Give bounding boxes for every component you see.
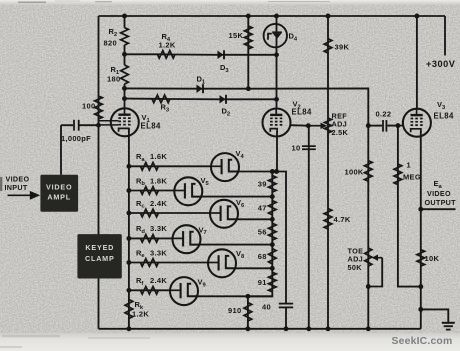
- node bottom bus 39K line: [326, 326, 331, 331]
- svg-text:SeekIC.com: SeekIC.com: [392, 336, 453, 347]
- video input arrow: [8, 194, 32, 196]
- wire 10uF line: [308, 126, 310, 329]
- svg-text:MEG: MEG: [403, 173, 421, 182]
- tube V7: [173, 225, 201, 253]
- node bus 40uF: [284, 326, 289, 331]
- capacitor 0.22 plates: [382, 120, 384, 132]
- node V2 grid junction: [306, 123, 311, 128]
- diode D2: [220, 95, 226, 103]
- node 1MEG join: [418, 284, 423, 289]
- wire 910 line: [247, 296, 249, 329]
- tube V4: [211, 153, 239, 181]
- svg-text:100K: 100K: [345, 168, 364, 177]
- svg-text:1: 1: [407, 161, 411, 170]
- wire 15K line: [247, 16, 249, 89]
- node D1 row: [122, 86, 127, 91]
- wire D1 row to V3 grid: [125, 88, 369, 125]
- tube V6: [210, 200, 238, 228]
- wire 1MEG line: [398, 126, 421, 287]
- svg-text:CLAMP: CLAMP: [85, 254, 115, 263]
- wire R2 top: [124, 16, 126, 28]
- svg-text:4.7K: 4.7K: [334, 215, 351, 224]
- resistor R1: [121, 65, 129, 84]
- svg-text:EL84: EL84: [434, 112, 454, 121]
- potentiometer REF ADJ 2.5K: [325, 118, 332, 133]
- node top bus 15K: [246, 14, 251, 19]
- svg-text:10K: 10K: [425, 254, 440, 263]
- potentiometer TOE ADJ 50K: [365, 248, 372, 266]
- tube V9: [170, 277, 198, 305]
- wire 0.22 row: [368, 125, 382, 127]
- wire TOE wiper jog: [368, 258, 382, 287]
- wire D4 line: [276, 16, 278, 55]
- svg-text:1.8K: 1.8K: [150, 176, 167, 185]
- node chain tap e: [270, 266, 275, 271]
- svg-text:39: 39: [258, 180, 267, 189]
- node D3 to V2 plate line: [274, 52, 279, 57]
- resistor Re 3.3K: [140, 259, 158, 267]
- node output tap: [418, 207, 423, 212]
- node D2 to V2 plate line: [274, 97, 279, 102]
- wire row Rb: [129, 190, 174, 192]
- wire row Rd: [129, 237, 173, 239]
- diode D4 triangle: [273, 33, 282, 38]
- svg-text:3.3K: 3.3K: [150, 224, 167, 233]
- node cathode row c: [126, 211, 131, 216]
- node bus 910: [245, 326, 250, 331]
- wire R1 to V1 plate: [124, 84, 126, 109]
- svg-text:AMPL: AMPL: [47, 193, 71, 202]
- wire bottom ground bus: [99, 328, 421, 330]
- wire output: [421, 208, 456, 210]
- svg-text:KEYED: KEYED: [85, 243, 114, 252]
- svg-text:100: 100: [82, 102, 95, 111]
- wire +300V stub: [444, 16, 446, 56]
- diode D4 envelope: [264, 24, 287, 47]
- node top bus V3: [414, 14, 419, 19]
- resistor 68: [269, 249, 277, 264]
- pot TOE wiper arrow: [377, 257, 382, 259]
- wire cap down to video ampl: [60, 125, 62, 175]
- node chain tap d: [270, 242, 275, 247]
- node chain tap c: [270, 217, 275, 222]
- resistor 1 MEG: [394, 164, 402, 185]
- svg-text:VIDEO: VIDEO: [46, 182, 72, 191]
- svg-text:2.5K: 2.5K: [332, 128, 349, 137]
- node chain tap b: [270, 194, 275, 199]
- resistor 100 ohm: [95, 96, 103, 119]
- resistor Rb 1.8K: [140, 187, 158, 195]
- wire V2 grid right: [290, 124, 308, 127]
- node cathode row d: [126, 236, 131, 241]
- wire row Ra: [129, 165, 211, 167]
- wire V8 plate to chain: [236, 267, 272, 269]
- svg-text:10: 10: [292, 144, 301, 153]
- svg-text:1.6K: 1.6K: [150, 152, 167, 161]
- pot REF ADJ wiper arrow: [308, 125, 322, 127]
- svg-text:15K: 15K: [229, 31, 244, 40]
- tube V1 EL84: [111, 108, 139, 136]
- scan artifact bottom-left smudges: [2, 335, 60, 338]
- wire V1 cathode line: [128, 128, 130, 328]
- svg-text:910: 910: [228, 306, 241, 315]
- node V3 grid junction: [395, 123, 400, 128]
- wire 39K line: [327, 16, 329, 329]
- node chain top: [270, 169, 275, 174]
- node R3 row: [122, 96, 127, 101]
- wire V3 plate line: [416, 16, 418, 109]
- node top bus D4: [274, 14, 279, 19]
- svg-text:1,000pF: 1,000pF: [61, 134, 91, 143]
- svg-text:EL84: EL84: [141, 122, 161, 131]
- resistor 4.7K: [324, 209, 332, 230]
- svg-text:1.2K: 1.2K: [159, 41, 176, 50]
- diode D1: [197, 85, 203, 93]
- wire 40uF to bus: [285, 307, 287, 328]
- node bus 10uF: [306, 326, 311, 331]
- resistor 910: [244, 303, 252, 322]
- node bus Rk: [126, 326, 131, 331]
- node top bus 39K: [326, 14, 331, 19]
- node 15K bottom: [246, 86, 251, 91]
- resistor Ra 1.6K: [140, 163, 158, 171]
- wire V9 plate to 910 node: [198, 295, 272, 297]
- scan artifact top edge streaks: [18, 1, 46, 3]
- resistor 10K: [417, 250, 425, 266]
- wire to ground: [421, 309, 449, 322]
- wire V2 plate line: [276, 55, 278, 109]
- wire top B+ bus: [99, 15, 446, 17]
- node top bus / R2: [122, 14, 127, 19]
- resistor R3: [152, 95, 170, 103]
- wire row Rf: [129, 289, 170, 291]
- tube V5: [174, 177, 202, 205]
- resistor R2: [121, 28, 129, 45]
- wire V7 plate to chain: [201, 244, 273, 246]
- svg-text:OUTPUT: OUTPUT: [425, 198, 457, 207]
- resistor 47: [269, 201, 277, 215]
- wire row Re: [129, 262, 208, 264]
- svg-text:EL84: EL84: [292, 108, 312, 117]
- tube V2 EL84: [263, 109, 291, 137]
- svg-text:91: 91: [258, 278, 267, 287]
- svg-text:0.22: 0.22: [376, 110, 392, 119]
- svg-text:180: 180: [107, 75, 120, 84]
- svg-text:INPUT: INPUT: [5, 183, 28, 192]
- wire cap to V1 grid: [61, 124, 73, 126]
- svg-text:68: 68: [258, 252, 267, 261]
- node ground branch: [418, 307, 423, 312]
- resistor Rk 1.2K: [125, 300, 133, 319]
- resistor 39: [269, 176, 277, 193]
- svg-text:3.3K: 3.3K: [150, 248, 167, 257]
- svg-text:820: 820: [104, 39, 117, 48]
- node cathode row f: [126, 288, 131, 293]
- wire row Rc: [129, 212, 210, 214]
- ground symbol: [442, 322, 455, 324]
- block KEYED CLAMP: [77, 234, 121, 278]
- node grid junction V1: [96, 123, 101, 128]
- block VIDEO AMPL: [40, 175, 78, 212]
- resistor Rc 2.4K: [140, 209, 158, 217]
- resistor 100K: [365, 161, 373, 182]
- wire divider chain: [271, 172, 273, 291]
- wire V4 plate to chain top: [239, 172, 286, 304]
- scan artifact left edge mark: [0, 177, 2, 191]
- resistor Rd 3.3K: [140, 235, 158, 243]
- node cathode row a: [126, 164, 131, 169]
- node cathode row e: [126, 260, 131, 265]
- svg-text:50K: 50K: [348, 263, 363, 272]
- svg-text:+300V: +300V: [426, 59, 456, 69]
- wire V6 plate to chain: [238, 218, 272, 220]
- wire R4 row: [125, 53, 277, 56]
- resistor 56: [269, 223, 277, 240]
- svg-text:1.2K: 1.2K: [132, 310, 149, 319]
- node TOE bottom: [366, 284, 371, 289]
- svg-text:47: 47: [258, 203, 267, 212]
- resistor 15K: [245, 26, 253, 49]
- capacitor 1000pF plates: [73, 120, 75, 131]
- wire V2 cathode down: [276, 131, 278, 172]
- tube V8: [208, 249, 236, 277]
- resistor 91: [269, 272, 277, 292]
- tube V3 EL84: [403, 109, 431, 137]
- capacitor 40uF plates: [279, 303, 293, 305]
- wire R3 row: [125, 98, 277, 101]
- resistor Rf 2.4K: [140, 287, 158, 295]
- node 910 top: [245, 294, 250, 299]
- svg-text:56: 56: [258, 227, 267, 236]
- diode D3: [218, 51, 224, 59]
- svg-text:39K: 39K: [335, 43, 350, 52]
- capacitor 10uF plates: [302, 145, 316, 147]
- node V2 cathode join: [274, 169, 279, 174]
- wire R2-R1 node: [124, 45, 126, 65]
- wire 100K TOE line: [367, 126, 369, 329]
- node cathode row b: [126, 188, 131, 193]
- wire V1 grid leads: [99, 120, 119, 122]
- svg-text:VIDEO: VIDEO: [427, 189, 451, 198]
- wire 91 bottom jog: [248, 291, 272, 297]
- node bus TOE: [366, 326, 371, 331]
- svg-text:40: 40: [262, 303, 271, 312]
- wire V5 plate to chain: [202, 196, 272, 198]
- wire left bus: [98, 16, 100, 329]
- svg-text:2.4K: 2.4K: [150, 276, 167, 285]
- diode D4 gamma electrode: [268, 34, 272, 40]
- svg-text:2.4K: 2.4K: [150, 199, 167, 208]
- wire V3 cathode line: [420, 131, 422, 329]
- resistor R4: [158, 51, 176, 59]
- resistor 39K: [324, 39, 332, 53]
- diode D4 cathode bar: [272, 31, 282, 33]
- node R4 row: [122, 52, 127, 57]
- node grid line 0.22: [366, 123, 371, 128]
